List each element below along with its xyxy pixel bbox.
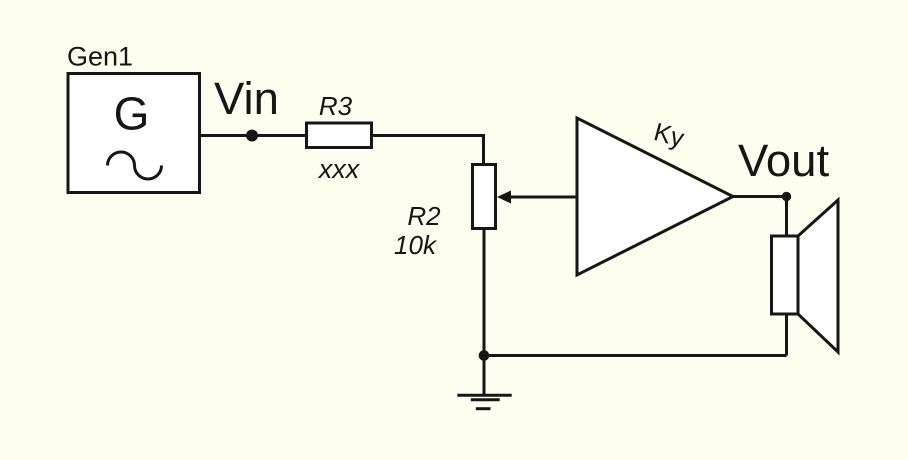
- amplifier Ky triangle: [577, 118, 733, 275]
- potentiometer R2 body: [473, 165, 496, 229]
- svg-text:R2: R2: [407, 201, 441, 231]
- svg-text:Vin: Vin: [214, 73, 279, 124]
- speaker cone: [798, 200, 838, 352]
- wire Gen1 to R3: [201, 134, 306, 137]
- wire junction to ground: [483, 356, 486, 396]
- wire bottom return to ground junction: [484, 354, 787, 357]
- sine wave symbol: [108, 152, 162, 179]
- ground: [457, 395, 511, 408]
- resistor R3: [307, 123, 372, 148]
- ground junction dot: [479, 350, 490, 361]
- generator Gen1 box: [68, 74, 200, 193]
- wire amplifier output to Vout: [733, 195, 787, 198]
- svg-text:G: G: [114, 88, 150, 140]
- svg-text:Gen1: Gen1: [67, 42, 133, 72]
- svg-text:R3: R3: [319, 91, 353, 121]
- wire wiper to amplifier input: [509, 196, 578, 199]
- wire Vout to speaker: [785, 197, 788, 238]
- node Vout junction dot: [782, 192, 791, 201]
- wire speaker bottom down: [785, 313, 788, 356]
- svg-text:xxx: xxx: [317, 154, 361, 184]
- wire R2 bottom to ground junction: [483, 228, 486, 356]
- svg-text:Vout: Vout: [738, 135, 829, 186]
- wiper arrow of R2: [497, 191, 511, 204]
- node Vin junction dot: [246, 130, 258, 142]
- svg-text:10k: 10k: [394, 230, 438, 260]
- speaker body rectangle: [772, 236, 799, 314]
- wire R3 to R2 top: [373, 136, 484, 167]
